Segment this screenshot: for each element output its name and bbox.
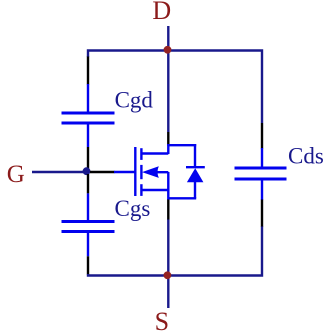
wire: right branch black segment lower (261, 200, 263, 227)
channel segment upper (140, 148, 142, 160)
channel segment lower (140, 184, 142, 196)
body diode branch upper (194, 144, 196, 167)
wire: drain lead lower black segment (167, 132, 169, 146)
wire: left branch black segment below G junction (87, 174, 89, 193)
wire: G junction to gate black segment (90, 171, 115, 173)
body diode cathode bar (186, 166, 205, 168)
source-to-diode loop bottom (168, 172, 196, 198)
drain stub (141, 152, 168, 154)
svg-text:D: D (152, 0, 171, 25)
svg-text:Cgs: Cgs (115, 196, 151, 221)
svg-text:Cds: Cds (288, 144, 324, 169)
body diode branch lower (194, 182, 196, 198)
drain-to-diode loop top (168, 145, 196, 154)
wire: source lead upper black segment (167, 199, 169, 220)
wire: left branch black segment to bottom rail (87, 256, 89, 274)
svg-text:Cgd: Cgd (115, 88, 154, 113)
wire: source lead vertical (navy) (167, 219, 169, 308)
node D junction dot (164, 46, 172, 54)
gate lead (blue) (114, 171, 135, 173)
svg-text:G: G (7, 161, 25, 188)
node S junction dot (164, 271, 172, 279)
node G junction dot (navy) (83, 167, 91, 175)
wire: top rail D node (navy) (88, 51, 262, 124)
channel segment middle (140, 165, 142, 179)
wire: left branch black segment below top rail (87, 57, 89, 85)
wire: right branch black segment upper (261, 123, 263, 149)
capacitor Cgd (62, 84, 115, 147)
wire: left branch black segment above G junction (87, 147, 89, 170)
transistor Q1 nmos with body diode (114, 144, 205, 198)
source stub (141, 189, 168, 191)
wire: bottom rail S node (navy) (88, 226, 262, 276)
bulk arrow (142, 166, 159, 178)
svg-text:S: S (155, 307, 169, 334)
bulk wire (156, 171, 168, 173)
wire: gate lead G (navy) (32, 171, 86, 173)
body diode triangle (187, 168, 204, 182)
capacitor Cds (235, 148, 287, 200)
wire: drain lead vertical (navy) (167, 26, 169, 132)
capacitor Cgs (62, 193, 115, 256)
gate bar (134, 147, 136, 196)
